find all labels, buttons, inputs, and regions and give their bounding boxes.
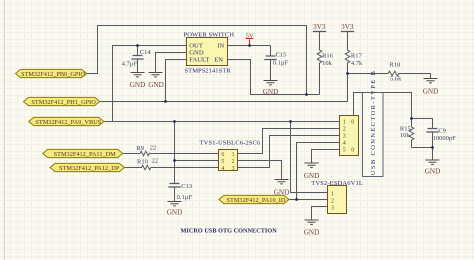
resistor R16 xyxy=(317,32,322,95)
ground for shield net xyxy=(426,160,440,164)
port flag STM32F412_PH1_GPIO xyxy=(24,97,100,105)
svg-text:0.1µF: 0.1µF xyxy=(177,194,193,201)
svg-text:4.7µF: 4.7µF xyxy=(122,61,138,68)
svg-text:3V3: 3V3 xyxy=(313,23,326,31)
wire TVS1 pin2 to ground xyxy=(238,161,282,180)
svg-text:1: 1 xyxy=(331,191,334,197)
svg-text:10k: 10k xyxy=(400,132,411,139)
resistor R10 xyxy=(124,165,218,170)
svg-text:C14: C14 xyxy=(140,49,152,56)
svg-text:5: 5 xyxy=(221,159,224,165)
svg-text:TVS1-USBLC6-2SC6: TVS1-USBLC6-2SC6 xyxy=(200,140,262,147)
svg-text:0: 0 xyxy=(351,120,354,126)
svg-text:0.1µF: 0.1µF xyxy=(273,60,289,67)
svg-text:GND: GND xyxy=(189,50,204,57)
svg-text:GND: GND xyxy=(148,81,164,89)
ground for TVS2 pin3 xyxy=(305,220,319,224)
svg-text:STM32F412_PA10_ID: STM32F412_PA10_ID xyxy=(226,197,285,204)
svg-text:FAULT: FAULT xyxy=(189,57,209,64)
power port 5V xyxy=(246,39,254,46)
wire VBUS branch to TVS2 pin1 xyxy=(291,122,328,193)
junction R15/C9 bottom xyxy=(431,146,434,149)
svg-text:GND: GND xyxy=(130,81,146,89)
ground for connector pin5 xyxy=(305,163,319,167)
ground under C13 xyxy=(168,202,182,206)
resistor R18 xyxy=(348,71,431,78)
junction ID net xyxy=(295,198,298,201)
svg-text:6: 6 xyxy=(221,152,224,158)
junction R17/R18 xyxy=(346,72,349,75)
capacitor C9 xyxy=(426,129,438,133)
svg-text:22: 22 xyxy=(150,144,157,151)
port flag STM32F412_PA10_ID xyxy=(219,195,289,203)
junction shield/R15 xyxy=(410,117,413,120)
svg-text:1: 1 xyxy=(343,120,346,126)
capacitor C14 xyxy=(137,46,139,73)
resistor R17 xyxy=(345,32,350,102)
svg-text:STMPS2141STR: STMPS2141STR xyxy=(185,68,232,75)
power port 3V3 for R17 xyxy=(341,31,354,33)
svg-text:5: 5 xyxy=(343,148,346,154)
svg-text:R10: R10 xyxy=(137,159,148,166)
svg-text:0: 0 xyxy=(351,148,354,154)
junction EN/top bus xyxy=(305,93,308,96)
diode TVS2 ESDA6V1L xyxy=(328,186,347,214)
junction VBUS/TVS2 branch xyxy=(289,120,292,123)
junction 5V/IN xyxy=(248,44,251,47)
junction C14/OUT xyxy=(136,44,139,47)
svg-text:3: 3 xyxy=(343,134,346,140)
svg-text:STM32F412_PA9_VBUS: STM32F412_PA9_VBUS xyxy=(35,119,101,126)
ground under C14 xyxy=(131,73,145,77)
svg-text:2: 2 xyxy=(343,127,346,133)
svg-text:MICRO USB OTG CONNECTION: MICRO USB OTG CONNECTION xyxy=(181,227,278,234)
svg-text:STM32F412_PA11_DM: STM32F412_PA11_DM xyxy=(54,151,117,158)
svg-text:EN: EN xyxy=(214,57,223,64)
svg-text:C9: C9 xyxy=(438,128,446,135)
wire PB0 flag to top bus to EN pullup xyxy=(87,26,307,95)
port flag STM32F412_PA11_DM xyxy=(43,149,123,157)
wire IN pin to 5V and C15 xyxy=(228,45,271,47)
port flag STM32F412_PB0_GPIO xyxy=(16,69,87,77)
wire FAULT pin to PH1 net xyxy=(166,60,187,102)
svg-text:4.7k: 4.7k xyxy=(351,60,363,67)
wire EN pin run xyxy=(228,60,320,95)
ground for TVS1 pin2 xyxy=(275,180,289,184)
wire shield net connector to R15 and C9 xyxy=(354,93,433,160)
power port 3V3 for R16 xyxy=(313,31,326,33)
junction TVS1 pin5/C13 xyxy=(173,159,176,162)
svg-text:4: 4 xyxy=(343,141,346,147)
IC U4 power switch STMPS2141STR xyxy=(187,38,228,66)
svg-text:R17: R17 xyxy=(351,52,363,59)
sheet left border xyxy=(4,0,5,260)
svg-text:USB CONNECTOR-TYPE B: USB CONNECTOR-TYPE B xyxy=(370,70,377,175)
svg-text:TVS2-ESDA6V1L: TVS2-ESDA6V1L xyxy=(311,180,363,187)
svg-text:R9: R9 xyxy=(136,145,144,152)
svg-text:OUT: OUT xyxy=(189,43,203,50)
svg-text:3: 3 xyxy=(331,205,334,211)
svg-text:5V: 5V xyxy=(246,33,254,40)
svg-text:R18: R18 xyxy=(389,62,400,69)
wire TVS2 pin3 to ground xyxy=(312,207,328,220)
wire TVS1 pin1 to connector pin2 xyxy=(238,129,340,154)
ground for power switch GND pin xyxy=(149,73,163,77)
junction VBUS/TVS1 branch xyxy=(173,120,176,123)
diode TVS1 USBLC6-2SC6 xyxy=(219,150,238,171)
svg-text:R16: R16 xyxy=(322,52,334,59)
capacitor C15 xyxy=(270,46,272,81)
svg-text:STM32F412_PH1_GPIO: STM32F412_PH1_GPIO xyxy=(31,99,96,106)
svg-text:2: 2 xyxy=(331,198,334,204)
connector USB pins box xyxy=(340,116,359,156)
capacitor C13 xyxy=(168,184,180,188)
connector body label USB CONNECTOR-TYPE B xyxy=(363,93,384,177)
wire ID net flag to TVS2 pin2 and connector pin4 xyxy=(289,143,340,200)
svg-text:IN: IN xyxy=(217,43,224,50)
wire connector pin5 to ground xyxy=(312,150,340,163)
svg-text:10000pF: 10000pF xyxy=(433,135,457,142)
junction FAULT/PH1 xyxy=(164,100,167,103)
wire VBUS net line xyxy=(104,121,340,123)
svg-text:POWER SWITCH: POWER SWITCH xyxy=(184,31,235,38)
svg-text:C13: C13 xyxy=(181,183,192,190)
svg-text:GND: GND xyxy=(304,172,320,180)
svg-text:4: 4 xyxy=(221,166,224,172)
wire OUT net down to VBUS xyxy=(113,46,187,122)
resistor R15 xyxy=(409,119,414,148)
svg-text:5.6k: 5.6k xyxy=(390,76,402,83)
wire GND pin of power switch xyxy=(156,53,187,73)
svg-text:10k: 10k xyxy=(322,60,333,67)
svg-text:GND: GND xyxy=(304,229,320,237)
svg-text:22: 22 xyxy=(152,158,159,165)
wire VBUS branch to TVS1 pin5 and C13 xyxy=(175,122,219,184)
svg-text:STM32F412_PA12_DP: STM32F412_PA12_DP xyxy=(59,165,120,172)
svg-text:STM32F412_PB0_GPIO: STM32F412_PB0_GPIO xyxy=(21,71,85,78)
svg-text:GND: GND xyxy=(167,209,183,217)
svg-text:2: 2 xyxy=(232,159,235,165)
ground under C15 xyxy=(264,81,278,85)
ground for R18 xyxy=(424,79,438,83)
svg-text:C15: C15 xyxy=(276,51,287,58)
wire TVS1 pin3 to connector pin3 xyxy=(238,136,340,168)
svg-text:3V3: 3V3 xyxy=(341,23,354,31)
svg-text:1: 1 xyxy=(232,152,235,158)
svg-text:3: 3 xyxy=(232,166,235,172)
wire PH1 net line xyxy=(100,101,348,103)
port flag STM32F412_PA12_DP xyxy=(50,163,124,171)
svg-text:GND: GND xyxy=(263,88,279,96)
port flag STM32F412_PA9_VBUS xyxy=(29,117,104,125)
resistor R9 xyxy=(123,151,219,156)
svg-text:GND: GND xyxy=(425,167,441,175)
svg-text:GND: GND xyxy=(423,87,439,95)
